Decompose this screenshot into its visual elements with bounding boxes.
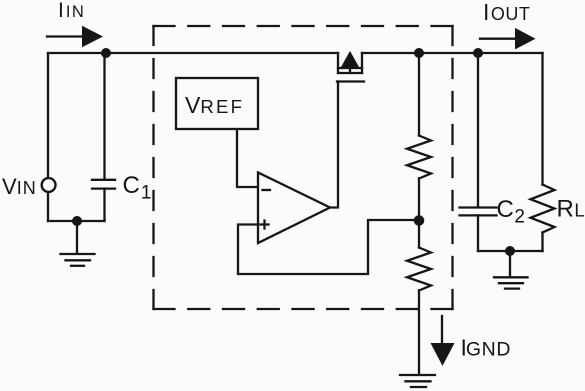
node R1 top junction [414, 48, 424, 58]
bulk tick [349, 68, 351, 73]
ground regulator [400, 375, 435, 387]
current arrow IGND [431, 316, 455, 366]
wire ground stem right [509, 251, 511, 277]
channel bar [338, 72, 362, 74]
wire VREF output to inverting input [237, 129, 258, 187]
svg-text:VIN: VIN [2, 174, 37, 199]
terminal VIN [42, 178, 56, 192]
wire R1 bottom [418, 179, 420, 221]
svg-text:IIN: IIN [58, 0, 85, 22]
capacitor C2 [460, 208, 497, 216]
current arrow IOUT [480, 28, 536, 50]
wire bottom left rail [48, 220, 105, 222]
label IOUT [483, 0, 530, 25]
resistor R2 [407, 248, 431, 291]
svg-text:IGND: IGND [461, 335, 512, 361]
wire C2 bottom branch [477, 215, 479, 251]
label C1 [123, 172, 152, 204]
wire ground stem left [76, 221, 78, 253]
label C2 [497, 196, 525, 228]
node input ground junction [72, 216, 82, 226]
wire C2 top branch [477, 53, 479, 207]
gate bar [337, 80, 364, 82]
wire left vertical to VIN terminal [47, 53, 49, 178]
drain terminal [337, 53, 339, 73]
wire top output rail [362, 52, 543, 54]
capacitor C1 [92, 180, 115, 189]
wire VIN to bottom node [47, 193, 49, 222]
op-amp plus pin mark [261, 221, 269, 229]
svg-text:C1: C1 [123, 172, 152, 204]
resistor R1 [407, 136, 431, 179]
label VREF [185, 92, 244, 118]
source arrow [341, 51, 360, 68]
transistor pass PMOS [337, 51, 364, 82]
wire R1 top [418, 53, 420, 136]
wire feedback to non-inverting input [238, 220, 419, 274]
op-amp U1 [258, 173, 330, 244]
svg-text:VREF: VREF [185, 92, 244, 118]
label VIN [2, 174, 37, 199]
source/drain bar [338, 67, 362, 69]
ground load [494, 277, 528, 288]
wire top input rail [48, 52, 338, 54]
node feedback junction [414, 215, 425, 226]
resistor RL [531, 185, 555, 233]
wire R2 top [418, 221, 420, 248]
label IIN [58, 0, 85, 22]
svg-text:RL: RL [557, 196, 585, 223]
node C2 top junction [473, 48, 483, 58]
svg-text:C2: C2 [497, 196, 525, 228]
wire R2 to ground [418, 291, 420, 375]
current arrow IIN [47, 26, 103, 47]
wire output bottom rail [478, 250, 543, 252]
svg-text:IOUT: IOUT [483, 0, 530, 25]
node input/C1 junction [101, 48, 111, 58]
label RL [557, 196, 585, 223]
node output ground junction [505, 246, 515, 256]
op-amp minus pin mark [263, 189, 271, 191]
wire op-amp output to gate [330, 82, 338, 208]
wire C1 top branch [103, 53, 105, 180]
IC boundary dashed box [154, 26, 453, 309]
wire C1 bottom branch [103, 189, 105, 221]
source terminal [361, 53, 363, 73]
label IGND [461, 335, 512, 361]
ground input [61, 254, 95, 266]
wire RL bottom branch [541, 233, 543, 252]
wire RL top branch [541, 53, 543, 185]
block VREF [176, 78, 258, 129]
